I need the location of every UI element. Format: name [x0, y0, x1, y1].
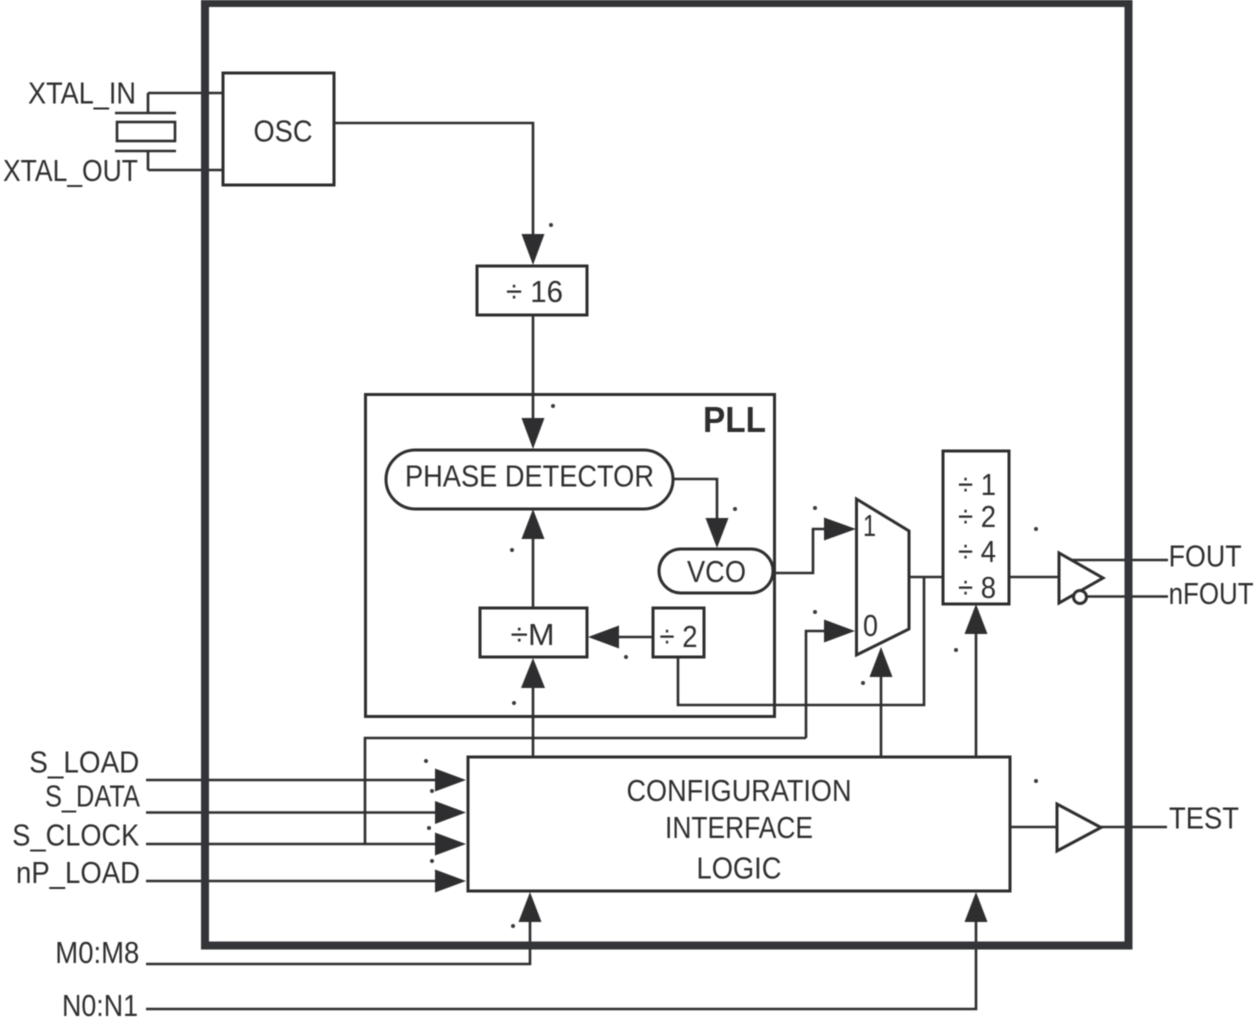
svg-text:PLL: PLL: [703, 399, 766, 440]
svg-text:nFOUT: nFOUT: [1169, 576, 1254, 611]
svg-text:1: 1: [863, 508, 876, 543]
svg-text:PHASE DETECTOR: PHASE DETECTOR: [405, 459, 654, 494]
svg-text:S_LOAD: S_LOAD: [29, 745, 139, 780]
svg-text:÷M: ÷M: [511, 617, 555, 652]
svg-text:nP_LOAD: nP_LOAD: [16, 855, 140, 890]
svg-text:TEST: TEST: [1169, 801, 1239, 836]
svg-text:XTAL_OUT: XTAL_OUT: [3, 153, 138, 188]
svg-text:÷ 4: ÷ 4: [958, 534, 996, 569]
svg-text:XTAL_IN: XTAL_IN: [28, 76, 136, 111]
svg-text:÷ 16: ÷ 16: [506, 274, 563, 309]
svg-text:N0:N1: N0:N1: [62, 988, 138, 1020]
svg-text:÷ 8: ÷ 8: [958, 570, 996, 605]
svg-text:CONFIGURATION: CONFIGURATION: [627, 773, 852, 808]
svg-text:÷ 2: ÷ 2: [660, 619, 698, 654]
svg-text:OSC: OSC: [254, 114, 313, 149]
svg-text:M0:M8: M0:M8: [55, 935, 139, 970]
svg-text:÷ 1: ÷ 1: [958, 467, 996, 502]
svg-text:LOGIC: LOGIC: [697, 851, 782, 886]
svg-text:S_CLOCK: S_CLOCK: [12, 818, 139, 853]
svg-text:INTERFACE: INTERFACE: [665, 810, 813, 845]
svg-text:0: 0: [863, 608, 878, 643]
svg-text:FOUT: FOUT: [1169, 539, 1242, 574]
svg-text:S_DATA: S_DATA: [45, 779, 140, 814]
svg-text:÷ 2: ÷ 2: [958, 499, 996, 534]
svg-text:VCO: VCO: [687, 554, 746, 589]
